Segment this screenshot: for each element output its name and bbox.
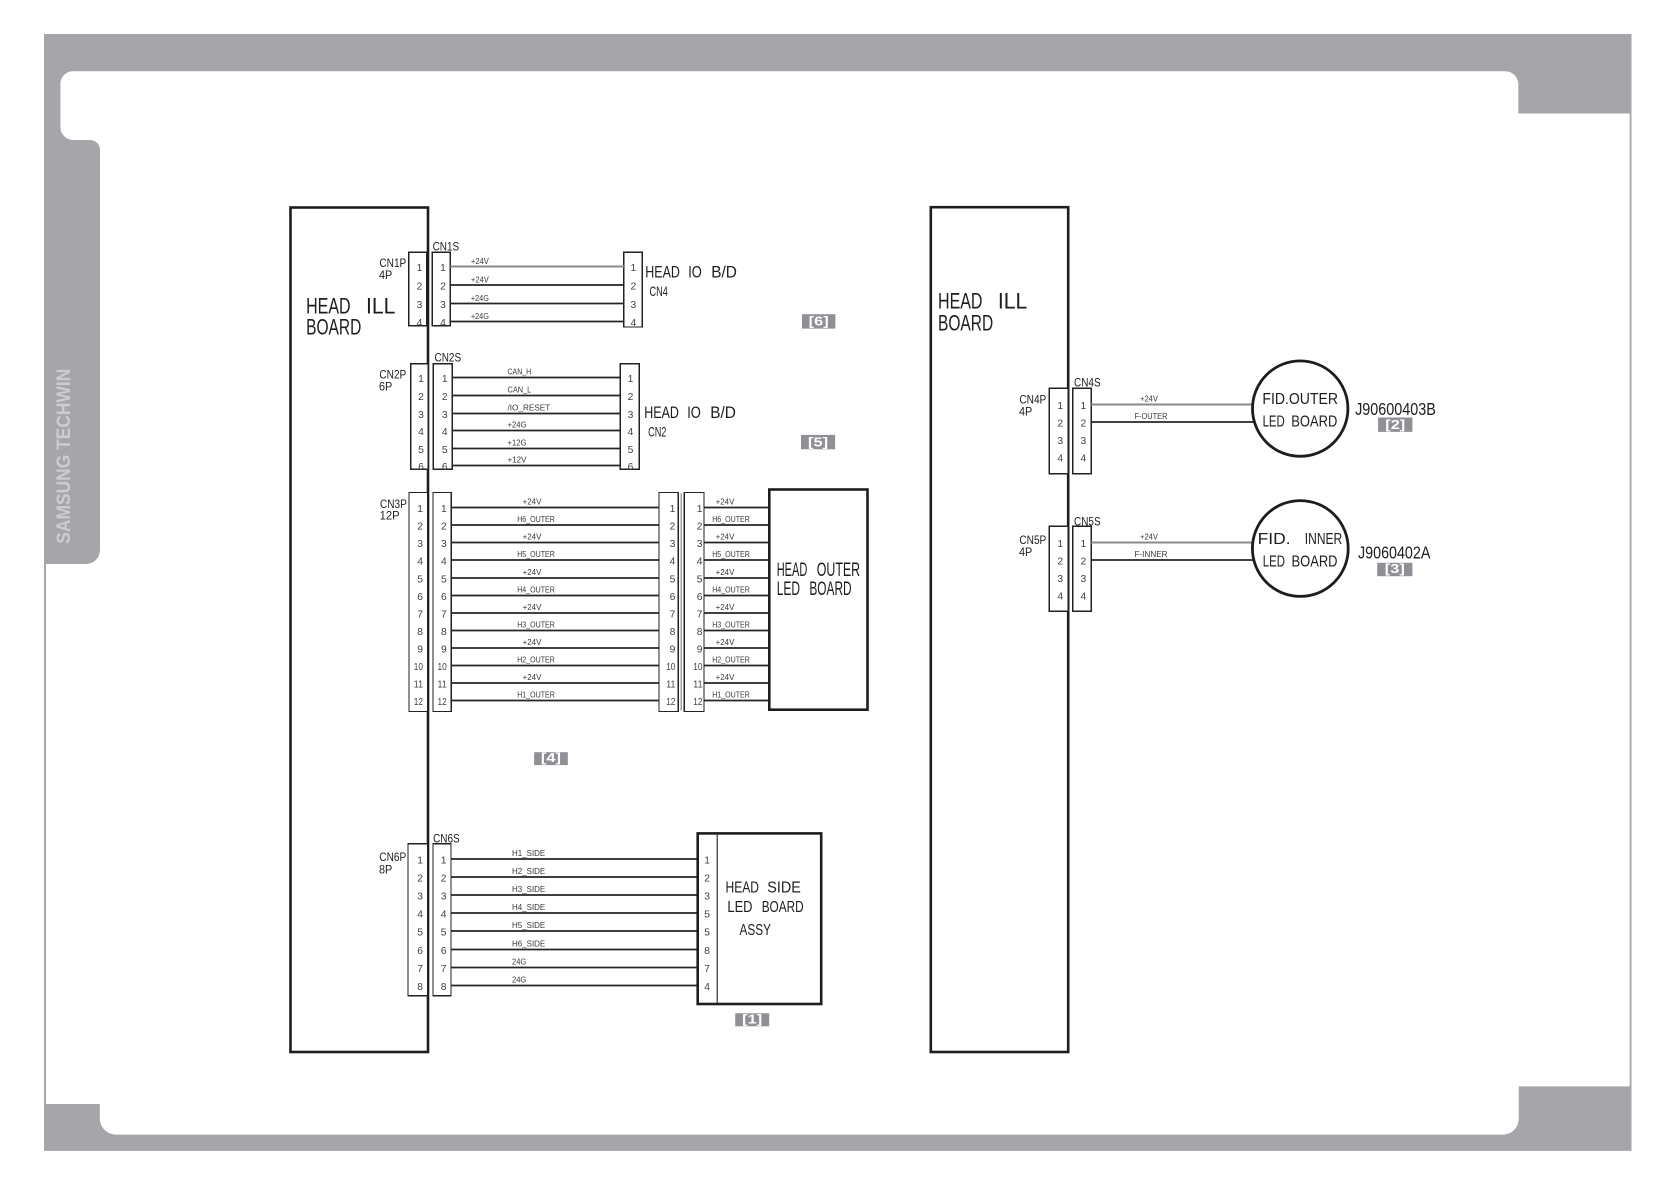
- svg-text:1: 1: [697, 504, 703, 515]
- svg-text:9: 9: [697, 644, 703, 655]
- svg-text:4P: 4P: [379, 270, 393, 282]
- svg-text:24G: 24G: [512, 975, 526, 985]
- svg-text:3: 3: [630, 300, 636, 311]
- svg-text:6: 6: [442, 462, 448, 473]
- svg-text:6P: 6P: [379, 381, 393, 393]
- svg-text:+24V: +24V: [1140, 394, 1158, 404]
- svg-text:+24V: +24V: [523, 602, 542, 612]
- svg-text:4: 4: [417, 556, 423, 567]
- svg-text:3: 3: [704, 891, 710, 902]
- svg-text:2: 2: [628, 392, 634, 403]
- svg-text:+24V: +24V: [716, 567, 735, 577]
- svg-text:H2_SIDE: H2_SIDE: [512, 866, 545, 876]
- svg-text:+24V: +24V: [523, 672, 542, 682]
- svg-text:7: 7: [441, 964, 447, 975]
- svg-text:+24V: +24V: [471, 256, 489, 266]
- svg-text:4: 4: [1057, 453, 1063, 464]
- svg-text:3: 3: [1080, 436, 1086, 447]
- svg-text:2: 2: [1057, 556, 1063, 567]
- svg-text:HEAD: HEAD: [777, 560, 808, 581]
- svg-text:4: 4: [1080, 591, 1086, 602]
- svg-text:+24V: +24V: [471, 274, 489, 284]
- svg-text:1: 1: [418, 374, 424, 385]
- svg-text:4: 4: [697, 556, 703, 567]
- svg-text:6: 6: [441, 592, 447, 603]
- svg-text:8: 8: [697, 627, 703, 638]
- svg-text:3: 3: [417, 891, 423, 902]
- svg-text:2: 2: [670, 521, 676, 532]
- svg-text:+24V: +24V: [716, 637, 735, 647]
- svg-text:4: 4: [704, 982, 710, 993]
- svg-text:1: 1: [417, 855, 423, 866]
- svg-text:1: 1: [1057, 539, 1063, 550]
- svg-text:5: 5: [441, 574, 447, 585]
- svg-text:H4_SIDE: H4_SIDE: [512, 902, 545, 912]
- svg-text:H5_SIDE: H5_SIDE: [512, 920, 545, 930]
- svg-text:B/D: B/D: [711, 264, 737, 282]
- svg-text:[5]: [5]: [808, 434, 828, 449]
- svg-text:4P: 4P: [1019, 547, 1033, 559]
- svg-text:3: 3: [440, 300, 446, 311]
- svg-text:IO: IO: [688, 264, 702, 282]
- svg-text:BOARD: BOARD: [809, 579, 851, 600]
- svg-text:3: 3: [442, 410, 448, 421]
- svg-text:5: 5: [704, 927, 710, 938]
- svg-text:+12V: +12V: [508, 455, 527, 465]
- svg-text:24G: 24G: [512, 957, 526, 967]
- svg-text:3: 3: [441, 539, 447, 550]
- svg-text:2: 2: [417, 873, 423, 884]
- svg-text:8: 8: [670, 627, 676, 638]
- svg-text:4: 4: [1080, 453, 1086, 464]
- svg-text:[2]: [2]: [1385, 417, 1405, 432]
- svg-text:CN6S: CN6S: [433, 834, 460, 846]
- svg-text:2: 2: [441, 521, 447, 532]
- svg-text:1: 1: [628, 374, 634, 385]
- svg-text:2: 2: [1057, 418, 1063, 429]
- svg-text:BOARD: BOARD: [306, 314, 361, 339]
- svg-text:H3_SIDE: H3_SIDE: [512, 884, 545, 894]
- svg-text:6: 6: [697, 592, 703, 603]
- svg-text:2: 2: [440, 281, 446, 292]
- svg-text:5: 5: [441, 927, 447, 938]
- svg-text:2: 2: [417, 521, 423, 532]
- svg-text:2: 2: [697, 521, 703, 532]
- svg-text:4P: 4P: [1019, 407, 1033, 419]
- svg-text:11: 11: [693, 679, 702, 690]
- svg-text:+24V: +24V: [1140, 532, 1158, 542]
- svg-text:CN3P: CN3P: [380, 499, 407, 511]
- svg-text:3: 3: [417, 300, 423, 311]
- svg-text:1: 1: [417, 504, 423, 515]
- svg-text:+24V: +24V: [523, 532, 542, 542]
- svg-text:5: 5: [442, 445, 448, 456]
- svg-text:/IO_RESET: /IO_RESET: [508, 403, 551, 413]
- svg-text:4: 4: [1057, 591, 1063, 602]
- svg-text:CN2: CN2: [648, 424, 666, 440]
- svg-text:2: 2: [441, 873, 447, 884]
- svg-text:H5_OUTER: H5_OUTER: [517, 549, 555, 559]
- svg-text:7: 7: [417, 964, 423, 975]
- svg-text:ILL: ILL: [998, 288, 1027, 313]
- svg-text:4: 4: [440, 318, 446, 329]
- svg-text:7: 7: [697, 609, 703, 620]
- svg-text:+12G: +12G: [508, 438, 527, 448]
- svg-text:OUTER: OUTER: [817, 560, 860, 581]
- svg-text:4: 4: [670, 556, 676, 567]
- svg-text:4: 4: [417, 318, 423, 329]
- svg-text:LED: LED: [777, 579, 800, 600]
- svg-text:LED: LED: [727, 899, 752, 916]
- svg-text:[1]: [1]: [742, 1011, 762, 1026]
- svg-text:ILL: ILL: [366, 294, 395, 319]
- svg-text:6: 6: [417, 592, 423, 603]
- svg-text:+24V: +24V: [523, 637, 542, 647]
- svg-text:H3_OUTER: H3_OUTER: [517, 620, 555, 630]
- svg-text:9: 9: [417, 644, 423, 655]
- svg-text:+24V: +24V: [716, 602, 735, 612]
- svg-text:5: 5: [418, 445, 424, 456]
- svg-text:1: 1: [441, 504, 447, 515]
- svg-text:2: 2: [704, 873, 710, 884]
- svg-text:6: 6: [418, 462, 424, 473]
- svg-text:CN6P: CN6P: [379, 852, 406, 864]
- svg-text:7: 7: [417, 609, 423, 620]
- svg-text:HEAD: HEAD: [644, 404, 679, 422]
- svg-text:1: 1: [442, 374, 448, 385]
- svg-text:1: 1: [630, 263, 636, 274]
- svg-text:12: 12: [666, 697, 675, 708]
- svg-text:H1_OUTER: H1_OUTER: [712, 690, 750, 700]
- svg-text:2: 2: [1080, 418, 1086, 429]
- svg-text:3: 3: [697, 539, 703, 550]
- svg-text:4: 4: [441, 909, 447, 920]
- svg-text:+24V: +24V: [523, 567, 542, 577]
- svg-text:H6_OUTER: H6_OUTER: [517, 514, 555, 524]
- svg-text:8: 8: [417, 627, 423, 638]
- svg-text:CN1S: CN1S: [433, 242, 460, 254]
- svg-text:8: 8: [441, 627, 447, 638]
- svg-text:4: 4: [628, 427, 634, 438]
- svg-text:BOARD: BOARD: [1292, 554, 1338, 571]
- svg-text:5: 5: [417, 574, 423, 585]
- svg-text:CN5P: CN5P: [1019, 535, 1046, 547]
- svg-text:6: 6: [441, 946, 447, 957]
- svg-text:CN1P: CN1P: [379, 258, 406, 270]
- svg-text:8P: 8P: [379, 865, 393, 877]
- svg-text:[6]: [6]: [809, 314, 829, 329]
- svg-text:11: 11: [414, 679, 423, 690]
- svg-text:BOARD: BOARD: [762, 899, 804, 916]
- svg-text:CN5S: CN5S: [1074, 516, 1101, 528]
- svg-text:2: 2: [417, 281, 423, 292]
- svg-text:+24V: +24V: [716, 532, 735, 542]
- svg-text:1: 1: [440, 263, 446, 274]
- svg-text:7: 7: [670, 609, 676, 620]
- svg-text:IO: IO: [687, 404, 701, 422]
- svg-text:3: 3: [628, 410, 634, 421]
- svg-text:2: 2: [442, 392, 448, 403]
- svg-text:CN4S: CN4S: [1074, 377, 1101, 389]
- svg-text:HEAD: HEAD: [726, 880, 760, 897]
- svg-text:CN2P: CN2P: [379, 369, 406, 381]
- svg-text:+24G: +24G: [471, 293, 489, 303]
- svg-text:+24V: +24V: [523, 497, 542, 507]
- svg-text:3: 3: [670, 539, 676, 550]
- svg-text:+24V: +24V: [716, 672, 735, 682]
- svg-text:FID.: FID.: [1258, 531, 1291, 548]
- svg-text:CN4: CN4: [650, 283, 668, 299]
- svg-text:3: 3: [417, 539, 423, 550]
- svg-text:4: 4: [441, 556, 447, 567]
- svg-text:5: 5: [704, 909, 710, 920]
- svg-text:B/D: B/D: [710, 404, 736, 422]
- svg-text:1: 1: [704, 855, 710, 866]
- svg-text:CAN_H: CAN_H: [508, 367, 532, 377]
- svg-text:1: 1: [1080, 401, 1086, 412]
- svg-text:+24G: +24G: [471, 311, 489, 321]
- svg-text:12: 12: [693, 697, 702, 708]
- svg-text:1: 1: [1080, 539, 1086, 550]
- svg-text:5: 5: [670, 574, 676, 585]
- svg-text:8: 8: [704, 946, 710, 957]
- svg-text:H1_OUTER: H1_OUTER: [517, 690, 555, 700]
- svg-text:6: 6: [628, 462, 634, 473]
- svg-text:H6_SIDE: H6_SIDE: [512, 939, 545, 949]
- svg-text:10: 10: [693, 662, 702, 673]
- svg-text:4: 4: [417, 909, 423, 920]
- svg-text:4: 4: [442, 427, 448, 438]
- svg-text:9: 9: [670, 644, 676, 655]
- svg-text:[3]: [3]: [1385, 561, 1405, 576]
- svg-text:SAMSUNG TECHWIN: SAMSUNG TECHWIN: [53, 369, 75, 544]
- svg-text:8: 8: [441, 982, 447, 993]
- svg-text:H4_OUTER: H4_OUTER: [517, 585, 555, 595]
- svg-text:7: 7: [704, 964, 710, 975]
- svg-text:H6_OUTER: H6_OUTER: [712, 514, 750, 524]
- svg-text:3: 3: [1057, 574, 1063, 585]
- svg-text:[4]: [4]: [541, 750, 561, 765]
- svg-text:H2_OUTER: H2_OUTER: [712, 655, 750, 665]
- svg-text:2: 2: [630, 281, 636, 292]
- svg-text:10: 10: [414, 662, 423, 673]
- svg-text:3: 3: [418, 410, 424, 421]
- svg-text:F-OUTER: F-OUTER: [1135, 411, 1168, 421]
- svg-text:H1_SIDE: H1_SIDE: [512, 848, 545, 858]
- svg-text:2: 2: [1080, 556, 1086, 567]
- svg-text:BOARD: BOARD: [938, 311, 993, 336]
- svg-text:ASSY: ASSY: [740, 922, 772, 939]
- svg-text:5: 5: [697, 574, 703, 585]
- svg-text:+24G: +24G: [508, 420, 527, 430]
- svg-text:12: 12: [438, 697, 447, 708]
- svg-text:H3_OUTER: H3_OUTER: [712, 620, 750, 630]
- svg-text:11: 11: [666, 679, 675, 690]
- svg-text:H4_OUTER: H4_OUTER: [712, 585, 750, 595]
- svg-text:12P: 12P: [380, 511, 400, 523]
- svg-text:4: 4: [630, 318, 636, 329]
- svg-text:LED: LED: [1263, 414, 1285, 431]
- svg-text:11: 11: [438, 679, 447, 690]
- svg-text:1: 1: [417, 263, 423, 274]
- svg-text:10: 10: [438, 662, 447, 673]
- svg-text:CN2S: CN2S: [435, 353, 462, 365]
- svg-text:8: 8: [417, 982, 423, 993]
- svg-text:J9060402A: J9060402A: [1358, 542, 1431, 562]
- svg-text:12: 12: [414, 697, 423, 708]
- svg-text:FID.OUTER: FID.OUTER: [1262, 391, 1338, 408]
- svg-text:1: 1: [441, 855, 447, 866]
- svg-text:LED: LED: [1263, 554, 1285, 571]
- svg-text:7: 7: [441, 609, 447, 620]
- svg-text:3: 3: [1080, 574, 1086, 585]
- svg-text:SIDE: SIDE: [767, 880, 801, 897]
- svg-text:5: 5: [417, 927, 423, 938]
- svg-text:1: 1: [670, 504, 676, 515]
- svg-text:3: 3: [441, 891, 447, 902]
- svg-text:6: 6: [417, 946, 423, 957]
- svg-text:+24V: +24V: [716, 497, 735, 507]
- svg-text:F-INNER: F-INNER: [1135, 549, 1168, 559]
- svg-text:H5_OUTER: H5_OUTER: [712, 549, 750, 559]
- svg-text:BOARD: BOARD: [1291, 414, 1337, 431]
- svg-text:HEAD: HEAD: [645, 264, 680, 282]
- svg-text:3: 3: [1057, 436, 1063, 447]
- svg-text:6: 6: [670, 592, 676, 603]
- svg-text:9: 9: [441, 644, 447, 655]
- svg-text:H2_OUTER: H2_OUTER: [517, 655, 555, 665]
- svg-text:CAN_L: CAN_L: [508, 385, 532, 395]
- svg-text:CN4P: CN4P: [1019, 395, 1046, 407]
- svg-text:10: 10: [666, 662, 675, 673]
- svg-text:4: 4: [418, 427, 424, 438]
- svg-text:1: 1: [1057, 401, 1063, 412]
- svg-text:5: 5: [628, 445, 634, 456]
- svg-text:INNER: INNER: [1305, 531, 1342, 548]
- svg-text:2: 2: [418, 392, 424, 403]
